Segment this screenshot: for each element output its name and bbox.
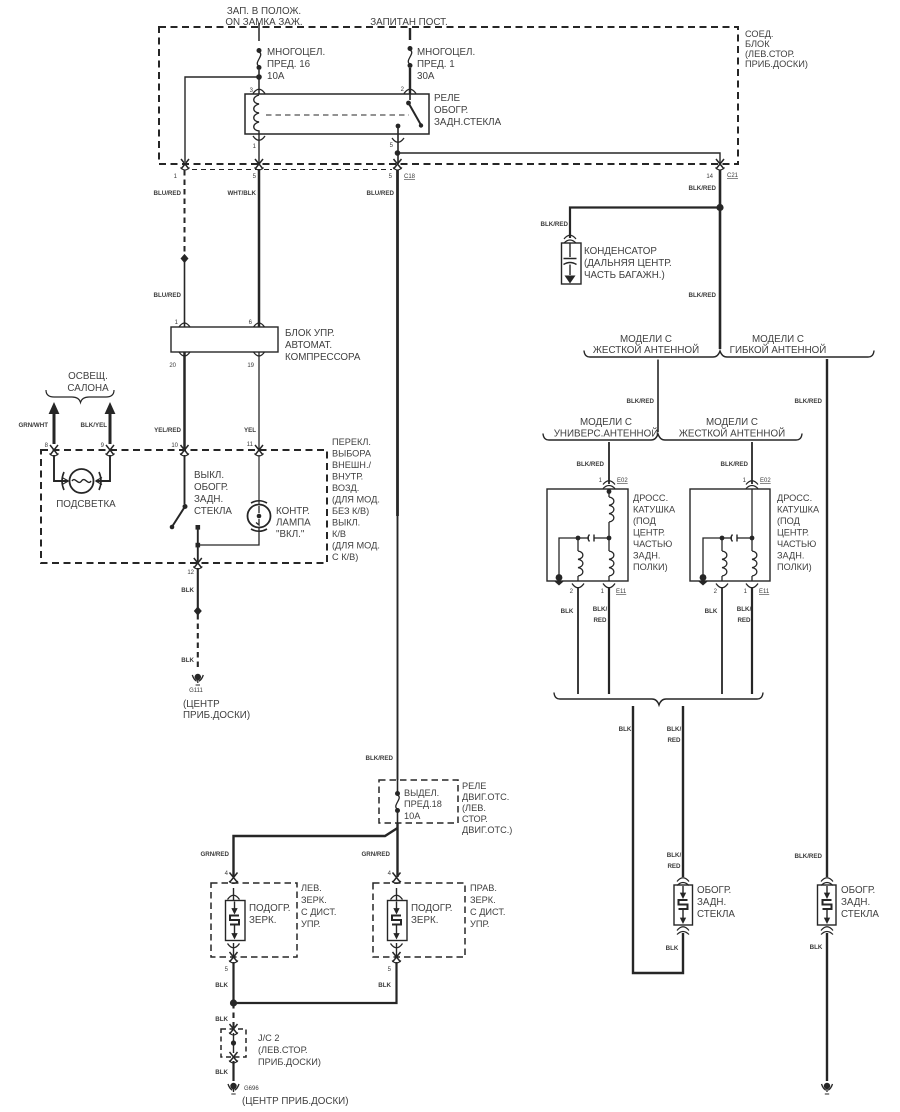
connector C21 pin 14 [716,159,725,170]
svg-text:E11: E11 [759,589,770,595]
ground right defogger [822,1083,833,1094]
svg-text:БЛОК: БЛОК [745,39,770,49]
wire choke2 left branch stub [721,538,723,551]
brace merge down [554,693,763,706]
right mirror dashed box (ПРАВ. ЗЕРК.) [392,873,401,884]
svg-text:RED: RED [593,617,607,624]
inductor L1c choke1 right lower coil [609,551,614,576]
capacitor connector arc [564,235,576,243]
svg-text:WHT/BLK: WHT/BLK [227,190,256,197]
wire BLK solid [197,568,199,608]
switch arm [173,507,186,527]
relay internal dashed link [266,114,409,116]
svg-text:E11: E11 [616,589,627,595]
svg-text:ЛАМПА: ЛАМПА [276,518,311,529]
svg-text:(ЦЕНТР ПРИБ.ДОСКИ): (ЦЕНТР ПРИБ.ДОСКИ) [242,1096,348,1107]
svg-text:BLK/: BLK/ [667,726,682,733]
brace options 2 [543,434,802,441]
wire BLK to ground [232,1061,234,1081]
choke2 bottom pins [716,584,728,588]
node junction pin5 branch [395,150,401,156]
svg-text:RED: RED [667,737,681,744]
connector C18 pin 1 [181,159,190,170]
svg-text:BLK/RED: BLK/RED [795,398,823,405]
svg-text:(ЛЕВ.СТОР.: (ЛЕВ.СТОР. [745,49,795,59]
node choke2 cap junction right [750,536,755,541]
svg-text:ПРИБ.ДОСКИ): ПРИБ.ДОСКИ) [258,1057,321,1067]
relay coil [254,95,259,134]
inductor L1a choke1 upper coil [609,497,614,522]
svg-text:C18: C18 [404,174,416,180]
svg-text:ГИБКОЙ АНТЕННОЙ: ГИБКОЙ АНТЕННОЙ [730,344,827,356]
svg-text:МОДЕЛИ С: МОДЕЛИ С [752,334,804,345]
pin 5 arc bottom right [392,138,404,142]
svg-text:С ДИСТ.: С ДИСТ. [301,907,337,917]
svg-text:ЦЕНТР.: ЦЕНТР. [777,528,809,538]
capacitor box (КОНДЕНСАТОР) [562,243,582,284]
svg-text:ДРОСС.: ДРОСС. [633,493,668,503]
node splice diamond [181,254,189,263]
svg-text:BLK/RED: BLK/RED [795,853,823,860]
svg-text:ВЫДЕЛ.: ВЫДЕЛ. [404,788,439,798]
svg-text:ЗАДН.: ЗАДН. [841,897,870,908]
svg-text:ПОЛКИ): ПОЛКИ) [633,562,668,572]
junction connector J/C 2 [229,1024,238,1035]
svg-text:ПРИБ.ДОСКИ): ПРИБ.ДОСКИ) [183,710,250,721]
svg-text:КАТУШКА: КАТУШКА [777,505,820,515]
wire choke2 case leg [703,538,722,577]
svg-text:BLK: BLK [810,944,823,951]
switch panel dashed box (ПЕРЕКЛ. ВЫБОРА) [41,450,327,563]
wire BLK dashed to J/C 2 [232,1003,234,1028]
wire battery feed to fuse 1 [409,28,411,40]
svg-text:ВНУТР.: ВНУТР. [332,472,363,482]
node junction mirrors ground [230,999,237,1006]
switch contact upper [183,504,188,509]
svg-text:ЗЕРК.: ЗЕРК. [249,915,276,926]
relay switch [409,94,411,100]
wire choke2 right exit [751,576,753,581]
switch wire in [184,455,186,504]
wire flexible antenna branch [826,359,828,877]
wire choke1 input stub [608,489,610,497]
svg-text:МНОГОЦЕЛ.: МНОГОЦЕЛ. [267,47,325,58]
svg-text:19: 19 [247,363,254,369]
lamp ПОДСВЕТКА [70,469,94,493]
svg-text:E02: E02 [760,478,771,484]
svg-text:ПОДОГР.: ПОДОГР. [411,903,452,914]
svg-text:ПРЕД. 1: ПРЕД. 1 [417,59,455,70]
wire choke2 left exit [721,576,723,581]
svg-text:ЗЕРК.: ЗЕРК. [411,915,438,926]
svg-text:11: 11 [247,442,254,448]
svg-text:КАТУШКА: КАТУШКА [633,505,676,515]
svg-text:ВНЕШН./: ВНЕШН./ [332,460,371,470]
svg-text:ПРЕД.18: ПРЕД.18 [404,799,442,809]
svg-text:К/В: К/В [332,529,346,539]
arrow to interior lights right [109,412,112,444]
svg-text:10А: 10А [404,811,421,821]
svg-text:РЕЛЕ: РЕЛЕ [462,781,486,791]
svg-text:BLK/: BLK/ [593,606,608,613]
svg-text:ОБОГР.: ОБОГР. [841,885,875,896]
svg-text:ЗАДН.: ЗАДН. [777,551,804,561]
svg-text:30А: 30А [417,71,435,82]
svg-text:BLK: BLK [378,982,391,989]
SECTION: choke coil 2 (ЖЕСТКАЯ АНТЕННА) [746,481,758,489]
svg-text:10: 10 [171,443,178,449]
svg-text:ЖЕСТКОЙ АНТЕННОЙ: ЖЕСТКОЙ АНТЕННОЙ [679,428,785,440]
wire BLU/RED solid to box [184,261,186,327]
wires choke1 out [577,587,579,694]
node choke2 cap junction left [720,536,725,541]
svg-text:ЦЕНТР.: ЦЕНТР. [633,528,665,538]
svg-text:BLK/RED: BLK/RED [689,292,717,299]
wire choke1 left branch stub [577,538,579,551]
fuse F16 [257,48,262,70]
node junction capacitor tap [716,204,723,211]
ground G696 [228,1083,239,1094]
node junction to indicator lamp [196,543,201,548]
svg-text:САЛОНА: САЛОНА [67,383,109,394]
svg-text:ЛЕВ.: ЛЕВ. [301,883,322,893]
connector C18 pin 5b [393,159,402,170]
wire to choke 1 [608,442,610,484]
wire ignition feed to fuse 16 [258,23,260,41]
pin 20 bump [179,352,190,356]
svg-text:УПР.: УПР. [470,919,489,929]
svg-text:ОСВЕЩ.: ОСВЕЩ. [68,371,108,382]
svg-text:BLK/RED: BLK/RED [366,755,394,762]
svg-text:ПРАВ.: ПРАВ. [470,883,497,893]
pin 6 bump [254,323,265,327]
svg-text:РЕЛЕ: РЕЛЕ [434,93,460,104]
ground choke2 case [699,582,708,586]
brace options 1 [584,351,874,358]
wire BLU/RED thick [396,170,399,516]
svg-text:(ПОД: (ПОД [633,516,657,526]
svg-text:BLK/RED: BLK/RED [721,461,749,468]
svg-text:ЗЕРК.: ЗЕРК. [470,895,496,905]
node splice diamond [194,606,202,615]
svg-text:МНОГОЦЕЛ.: МНОГОЦЕЛ. [417,47,475,58]
svg-text:СТОР.: СТОР. [462,814,488,824]
pin 1 arc bottom left [253,136,265,140]
wire choke1 cap lead right [594,537,609,539]
svg-text:BLK/: BLK/ [667,852,682,859]
svg-text:ОБОГР.: ОБОГР. [434,105,468,116]
wire to ground [826,933,828,1081]
svg-text:ДВИГ.ОТС.): ДВИГ.ОТС.) [462,825,512,835]
svg-text:BLU/RED: BLU/RED [154,190,182,197]
svg-text:С К/В): С К/В) [332,552,358,562]
wire choke2 input run [751,489,753,551]
connector row thin dashed line [192,169,392,171]
svg-text:20: 20 [169,363,176,369]
wire choke1 mid [608,522,610,551]
svg-text:ДРОСС.: ДРОСС. [777,493,812,503]
svg-text:С ДИСТ.: С ДИСТ. [470,907,506,917]
svg-text:BLU/RED: BLU/RED [367,190,395,197]
svg-text:(ЛЕВ.: (ЛЕВ. [462,803,486,813]
svg-text:RED: RED [667,863,681,870]
pin 1 bump [179,323,190,327]
svg-text:BLK: BLK [215,982,228,989]
pin crossings into switch panel [50,445,59,456]
svg-text:КОМПРЕССОРА: КОМПРЕССОРА [285,352,361,363]
fuse F18 [395,791,400,813]
connector block dashed box (СОЕД. БЛОК) [159,27,738,164]
wire BLK dashed [197,614,199,671]
wire to choke 2 [751,442,753,484]
svg-text:BLK: BLK [619,726,632,733]
svg-text:ВЫКЛ.: ВЫКЛ. [332,518,360,528]
svg-text:МОДЕЛИ С: МОДЕЛИ С [706,417,758,428]
wire BLK/RED down [682,706,684,877]
svg-text:GRN/RED: GRN/RED [361,851,390,858]
heater element left mirror [226,901,246,941]
svg-text:ДВИГ.ОТС.: ДВИГ.ОТС. [462,792,509,802]
wire choke1 left exit [577,576,579,581]
svg-text:12: 12 [187,570,194,576]
svg-text:BLK/: BLK/ [737,606,752,613]
svg-text:МОДЕЛИ С: МОДЕЛИ С [580,417,632,428]
svg-text:BLU/RED: BLU/RED [154,292,182,299]
wire fuse18 output split [396,823,398,877]
inductor L1b choke1 left coil [578,551,583,576]
svg-text:ПРИБ.ДОСКИ): ПРИБ.ДОСКИ) [745,59,808,69]
pin 19 bump [254,352,265,356]
wire relay pin5 down [397,134,399,164]
wire fuse16 to relay pin 3 [258,70,260,94]
wire choke1 cap lead left [578,537,589,539]
ground G111 [192,674,203,685]
node choke1 input [607,489,612,494]
brace under label [46,390,114,403]
svg-text:УПР.: УПР. [301,919,320,929]
wires choke2 out [721,587,723,694]
wire BLU/RED dashed pin1 down [184,170,186,256]
indicator lamp КОНТР ЛАМПА [248,505,271,528]
svg-text:ОБОГР.: ОБОГР. [194,482,228,493]
wire choke1 right exit [608,576,610,581]
svg-text:ПОЛКИ): ПОЛКИ) [777,562,812,572]
node junction fuse16 output [256,74,262,80]
svg-text:"ВКЛ.": "ВКЛ." [276,529,305,540]
inductor L2a choke2 left coil [722,551,727,576]
svg-text:(ДЛЯ МОД.: (ДЛЯ МОД. [332,541,380,551]
svg-text:ОБОГР.: ОБОГР. [697,885,731,896]
svg-text:(ДЛЯ МОД.: (ДЛЯ МОД. [332,495,380,505]
svg-text:ЗАДН.: ЗАДН. [633,551,660,561]
svg-text:ЗАДН.: ЗАДН. [194,494,223,505]
svg-text:БЕЗ К/В): БЕЗ К/В) [332,506,369,516]
svg-text:BLK: BLK [181,657,194,664]
wire choke2 cap lead right [737,537,752,539]
capacitor C1 choke1 plate bar [593,535,595,542]
svg-text:(ЦЕНТР: (ЦЕНТР [183,699,220,710]
inductor L2b choke2 right coil [752,551,757,576]
svg-text:G696: G696 [244,1086,259,1092]
svg-text:BLK/RED: BLK/RED [627,398,655,405]
wire WHT/BLK pin5 down to box [258,170,261,327]
svg-text:КОНДЕНСАТОР: КОНДЕНСАТОР [584,246,657,257]
svg-text:ВЫКЛ.: ВЫКЛ. [194,470,224,481]
svg-text:СТЕКЛА: СТЕКЛА [841,909,879,920]
svg-text:КОНТР.: КОНТР. [276,506,310,517]
ground choke1 case [555,582,564,586]
svg-text:ЧАСТЬЮ: ЧАСТЬЮ [633,539,672,549]
svg-text:ПЕРЕКЛ.: ПЕРЕКЛ. [332,437,371,447]
wire rigid antenna branch [657,360,659,433]
svg-text:ВЫБОРА: ВЫБОРА [332,449,372,459]
pin 12 crossing [193,558,202,569]
svg-text:14: 14 [706,174,713,180]
capacitor C2 choke2 plate curve [731,535,733,542]
wire relay pin1 down [258,134,260,164]
svg-text:ВОЗД.: ВОЗД. [332,483,359,493]
defogger element left [677,878,689,886]
svg-text:J/C 2: J/C 2 [258,1033,279,1043]
svg-text:BLK: BLK [666,945,679,952]
svg-text:ЧАСТЬ БАГАЖН.): ЧАСТЬ БАГАЖН.) [584,270,665,281]
wire to indicator lamp [198,528,259,545]
wire choke1 case leg [559,538,578,577]
arrow to interior lights left [53,412,56,444]
svg-text:ЧАСТЬЮ: ЧАСТЬЮ [777,539,816,549]
svg-text:BLK/RED: BLK/RED [689,185,717,192]
wire branch to right connector 14 [398,153,721,164]
svg-text:BLK: BLK [561,608,574,615]
svg-text:ПРЕД. 16: ПРЕД. 16 [267,59,311,70]
svg-text:ПОДСВЕТКА: ПОДСВЕТКА [56,499,116,510]
pin 3 arc top left [253,89,265,93]
pin 2 arc top right [404,89,416,93]
svg-text:YEL: YEL [244,427,256,434]
heater element right mirror [388,901,408,941]
node choke1 cap junction left [576,536,581,541]
wire pin11 to lamp [258,455,260,505]
svg-text:BLK: BLK [215,1016,228,1023]
left mirror dashed box (ЛЕВ. ЗЕРК.) [229,873,238,884]
node choke1 case corner [556,574,563,581]
connector C18 pin 5a [255,159,264,170]
wires mirrors to common ground [232,962,234,1003]
compressor control unit box (БЛОК УПР. АВТОМАТ. КОМПРЕССОРА) [171,327,278,352]
svg-text:СТЕКЛА: СТЕКЛА [194,506,232,517]
svg-text:(ПОД: (ПОД [777,516,801,526]
svg-text:(ДАЛЬНЯЯ ЦЕНТР.: (ДАЛЬНЯЯ ЦЕНТР. [584,258,672,269]
svg-text:GRN/WHT: GRN/WHT [18,422,48,429]
svg-text:E02: E02 [617,478,628,484]
relay box (РЕЛЕ ОБОГР. ЗАДН.СТЕКЛА) [245,94,429,134]
illumination lamp wiring [54,455,68,481]
svg-text:GRN/RED: GRN/RED [200,851,229,858]
svg-text:ЗАДН.: ЗАДН. [697,897,726,908]
defogger element right [821,878,833,886]
svg-text:BLK/RED: BLK/RED [541,221,569,228]
wire BLK down [633,706,683,973]
wire to capacitor [570,208,720,239]
svg-text:BLK: BLK [705,608,718,615]
fuse F1 [408,46,413,68]
svg-text:10А: 10А [267,71,285,82]
fuse 18 dashed box (ВЫДЕЛ. ПРЕД.18) [379,780,458,823]
node choke1 cap junction right [607,536,612,541]
svg-text:АВТОМАТ.: АВТОМАТ. [285,340,332,351]
svg-text:YEL/RED: YEL/RED [154,427,181,434]
SECTION: choke coil 1 (УНИВЕРС.АНТЕННА) [603,481,615,489]
svg-text:ЖЕСТКОЙ АНТЕННОЙ: ЖЕСТКОЙ АНТЕННОЙ [593,344,699,356]
svg-text:(ЛЕВ.СТОР.: (ЛЕВ.СТОР. [258,1045,308,1055]
svg-text:C21: C21 [727,173,739,179]
capacitor C1 choke1 plate curve [588,535,590,542]
svg-text:УНИВЕРС.АНТЕННОЙ: УНИВЕРС.АНТЕННОЙ [554,428,659,440]
wire switch output [197,528,199,563]
wire YEL pin19 down [258,352,260,450]
svg-text:СОЕД.: СОЕД. [745,29,773,39]
wire choke2 cap lead left [722,537,732,539]
wire BLK/RED from connector 14 down [719,170,722,349]
svg-text:МОДЕЛИ С: МОДЕЛИ С [620,334,672,345]
svg-text:BLK: BLK [215,1069,228,1076]
node choke2 case corner [700,574,707,581]
wire fuse1 to relay pin 2 [409,68,411,94]
svg-text:БЛОК УПР.: БЛОК УПР. [285,328,335,339]
switch contact lower [196,525,201,530]
svg-text:ЗАДН.СТЕКЛА: ЗАДН.СТЕКЛА [434,117,502,128]
svg-text:G111: G111 [189,688,203,694]
svg-text:ЗЕРК.: ЗЕРК. [301,895,327,905]
choke1 bottom pins [572,584,584,588]
svg-text:ЗАП. В ПОЛОЖ.: ЗАП. В ПОЛОЖ. [227,6,301,17]
svg-text:BLK/RED: BLK/RED [577,461,605,468]
capacitor C2 choke2 plate bar [736,535,738,542]
svg-text:СТЕКЛА: СТЕКЛА [697,909,735,920]
svg-text:BLK/YEL: BLK/YEL [81,422,108,429]
svg-text:RED: RED [737,617,751,624]
wire branch to pin 1 (BLU/RED) [185,77,259,162]
svg-text:BLK: BLK [181,587,194,594]
wire YEL/RED pin20 down [183,352,186,450]
svg-text:ПОДОГР.: ПОДОГР. [249,903,290,914]
